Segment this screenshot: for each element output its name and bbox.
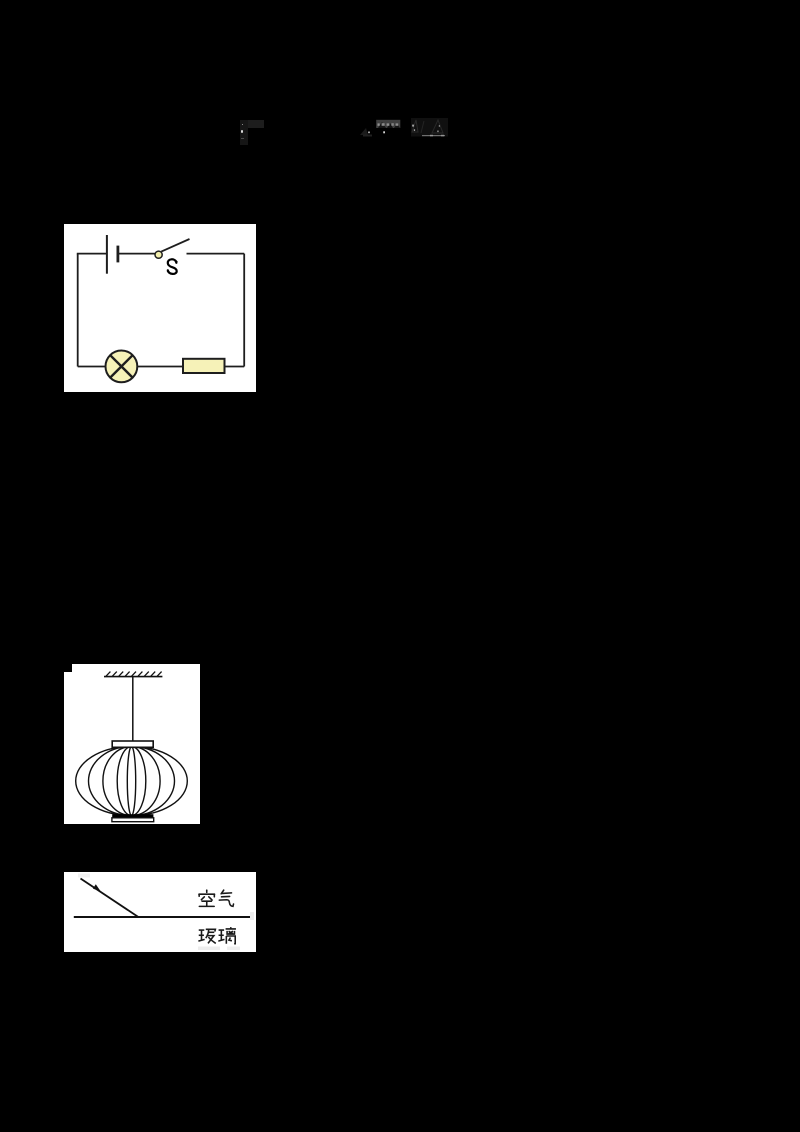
figure 3: refraction diagram white panel [64,872,256,952]
label 空气 (air) [199,890,234,906]
label S [167,259,177,274]
switch pivot dot [155,251,162,258]
interface line air/glass [74,916,250,918]
lantern bottom white bar [112,818,154,822]
faint fragment A (dark thumbnail near x=240,y=120) [240,120,248,145]
wire: top left to battery [77,253,107,255]
faint fragment B (inverted formula thumbnail near x=376,y=120) [358,116,403,140]
ceiling line [104,676,162,678]
ray arrowhead [93,884,101,891]
label 玻璃 (glass) [198,927,236,944]
hanging rod [132,677,134,742]
ceiling hatching [106,672,162,677]
artifact smudges [78,874,90,878]
wire: battery to switch [118,253,155,255]
wire: bottom [78,366,245,368]
wire: left vertical [77,254,79,367]
battery short plate [117,246,120,263]
switch lever [161,239,189,252]
wire: right vertical [243,254,245,367]
figure 2: hanging lantern white panel [64,664,200,824]
璃 [218,927,236,944]
incident ray [81,879,139,918]
lantern top cap [112,741,153,747]
lamp L [106,351,138,383]
resistor R [183,359,225,373]
wire: switch to right corner [187,253,245,255]
faint fragment C (inverted formula thumbnail near x=412,y=120) [408,114,453,140]
lantern bottom black bar [112,814,153,818]
battery long plate [106,235,108,274]
notch cut at panel top-left [64,664,72,672]
气 [219,890,233,906]
玻 [198,929,215,943]
figure 1: circuit schematic white panel [64,224,256,392]
空 [199,890,215,906]
lantern ribs (nested ellipses) [76,747,188,816]
